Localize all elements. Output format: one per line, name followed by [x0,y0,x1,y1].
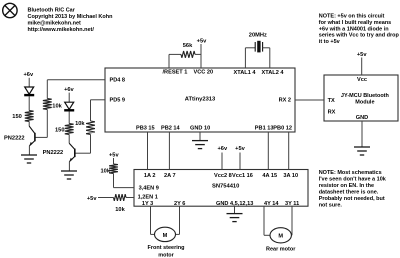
svg-text:PD5 9: PD5 9 [110,98,126,104]
svg-text:datasheet there is one.: datasheet there is one. [319,190,379,196]
svg-text:GND 4,5,12,13: GND 4,5,12,13 [216,201,253,207]
U1 pin label PB1 13 [255,126,274,132]
resistor R4 10k [86,121,95,135]
microcontroller U1 ATtiny2313 [105,68,295,132]
svg-text:3A 10: 3A 10 [283,173,298,179]
svg-text:+6v with a 1N4001 diode in: +6v with a 1N4001 diode in [319,26,389,32]
svg-text:JY-MCU Bluetooth: JY-MCU Bluetooth [341,93,390,99]
power +6v (LED1) [23,72,33,78]
module U3 JY-MCU Bluetooth box [324,75,398,121]
svg-text:motor: motor [158,252,174,258]
U1 pin label XTAL2 4 [262,70,285,76]
U1 pin label GND 10 [190,126,210,132]
wire +5v-Vcc1 [239,153,241,170]
logo mikekohn.net (circle with X) [3,3,17,17]
label 10k (3,4EN) [101,168,111,174]
wire XTAL1 stub [245,48,255,68]
svg-text:Bluetooth R/C Car: Bluetooth R/C Car [28,7,76,13]
svg-text:GND 10: GND 10 [190,126,210,132]
svg-text:XTAL2 4: XTAL2 4 [262,70,285,76]
U1 pin label PB2 14 [161,126,181,132]
U2 pin label 3A 10 [283,173,298,179]
svg-text:http://www.mikekohn.net/: http://www.mikekohn.net/ [28,27,95,33]
svg-text:RX 2: RX 2 [279,98,291,104]
wire PB3-1A [147,132,149,170]
svg-text:not sure.: not sure. [319,203,343,209]
U2 pin label Vcc1 16 [232,173,253,179]
svg-text:M: M [278,234,283,240]
ground (ATtiny) [192,141,208,149]
wire GND down [361,121,363,147]
wire 10k to 1,2EN [126,197,134,199]
label front steering motor [148,245,185,258]
label PN2222 (Q2) [43,150,64,156]
svg-text:Vcc1 16: Vcc1 16 [232,173,253,179]
U1 pin label PB0 12 [273,126,292,132]
svg-text:+6v: +6v [23,72,33,78]
wire +6v to LED1 [28,78,30,87]
svg-text:3,4EN 9: 3,4EN 9 [139,185,159,191]
motor M1 front steering [155,227,176,241]
wire R2 to Q1 base [35,110,47,138]
U2 pin label 1A 2 [144,173,156,179]
svg-text:3Y 11: 3Y 11 [285,201,299,207]
svg-text:series with Vcc to try and dro: series with Vcc to try and drop [319,33,400,39]
LED D2 [64,102,74,110]
svg-text:SN754410: SN754410 [212,184,239,190]
label 20MHz [249,33,267,39]
svg-text:2A 7: 2A 7 [164,173,176,179]
svg-text:Module: Module [355,100,374,106]
svg-text:Vcc2 8: Vcc2 8 [214,173,232,179]
power +5v (Vcc1) [235,146,245,152]
label 10k (R4) [75,121,85,127]
svg-text:RX: RX [328,109,336,115]
power +6v (LED2) [64,87,74,93]
U2 pin label 1,2EN 1 [138,194,158,200]
U2 pin label 1Y 3 [142,201,153,207]
svg-text:PB3 15: PB3 15 [136,126,155,132]
wire PD4 net [47,80,105,99]
U2 pin label 3Y 11 [285,201,299,207]
wire R1 to Q1 collector [28,122,30,127]
svg-text:PB2 14: PB2 14 [161,126,181,132]
note top-right [319,13,400,45]
svg-text:mike@mikekohn.net: mike@mikekohn.net [28,21,82,27]
svg-text:20MHz: 20MHz [249,33,267,39]
U1 pin label /RESET 1 [163,70,188,76]
svg-text:1Y 3: 1Y 3 [142,201,153,207]
svg-text:it to +5v: it to +5v [319,39,341,45]
U1 pin label RX 2 [279,98,291,104]
resistor R 56k [181,51,195,58]
U2 pin label 4A 15 [262,173,277,179]
svg-text:2Y 6: 2Y 6 [174,201,185,207]
wire PB0-3A [288,132,290,170]
wire Q1 emitter down [28,146,30,155]
resistor R3 150 [65,124,74,135]
svg-text:10k: 10k [115,207,125,213]
wire LED1 to R1 [28,96,30,110]
wire 4Y down [264,206,270,235]
crystal Y1 20MHz [255,41,262,53]
U3 pin label Vcc [357,77,367,83]
svg-text:VCC 20: VCC 20 [194,70,214,76]
wire GND10 down [199,132,201,141]
wire +5v down [113,158,115,164]
svg-text:1,2EN 1: 1,2EN 1 [138,194,158,200]
svg-text:+6v: +6v [64,87,74,93]
U2 pin label Vcc2 8 [214,173,232,179]
U1 pin label PB3 15 [136,126,155,132]
svg-text:4Y 14: 4Y 14 [264,201,279,207]
label 150 (R3) [55,128,65,134]
U2 pin label GND 4,5,12,13 [216,201,253,207]
svg-text:Copyright 2013 by Michael Kohn: Copyright 2013 by Michael Kohn [28,14,114,20]
wire 10k to 3,4EN [114,174,135,188]
svg-text:10k: 10k [52,104,62,110]
svg-text:resistor on EN. In the: resistor on EN. In the [319,183,374,189]
svg-text:/RESET 1: /RESET 1 [163,70,188,76]
svg-text:TX: TX [328,98,335,104]
label rear motor [266,247,296,253]
driver U2 SN754410 box [134,170,308,207]
wire 56k right lead [195,53,201,55]
power +5v (1,2EN) [87,196,97,202]
svg-text:150: 150 [55,128,65,134]
svg-text:PD4 8: PD4 8 [110,78,126,84]
svg-text:10k: 10k [101,168,111,174]
wire 3Y down [290,206,293,235]
svg-text:56k: 56k [183,43,193,49]
svg-text:PN2222: PN2222 [43,150,64,156]
wire 1Y down [151,206,155,234]
label 10k (1,2EN) [115,207,125,213]
resistor R1 150 [25,111,34,122]
svg-text:10k: 10k [75,121,85,127]
svg-text:PB0 12: PB0 12 [273,126,292,132]
wire PB1-4A [267,132,269,170]
svg-text:I've seen don't have a 10k: I've seen don't have a 10k [319,177,387,183]
motor M2 rear [270,228,291,243]
wire XTAL2 stub [263,48,270,68]
wire +6v-Vcc2 [221,153,223,170]
resistor R 10k (1,2EN) [114,194,127,201]
wire Q2 emitter down [68,162,70,171]
U1 pin label VCC 20 [194,70,214,76]
svg-text:Vcc: Vcc [357,77,367,83]
svg-text:M: M [163,233,168,239]
svg-text:+6v: +6v [217,146,227,152]
svg-text:NOTE: Most schematics: NOTE: Most schematics [319,170,382,176]
svg-text:for what I built really means: for what I built really means [319,20,391,26]
wire 56k left lead [169,53,181,55]
note bottom-right [319,170,387,209]
transistor Q1 PN2222 [29,126,35,146]
LED D1 [24,87,34,95]
wire 2Y down [176,206,180,234]
ground (SN754410) [227,214,243,222]
svg-text:+5v: +5v [87,196,97,202]
U3 pin label GND [356,115,368,121]
wire LED2 to R3 [68,111,70,123]
wire PD5 net [91,100,106,121]
title text block [28,7,114,33]
svg-text:+5v: +5v [235,146,245,152]
U2 pin label 2Y 6 [174,201,185,207]
svg-text:Probably not needed, but: Probably not needed, but [319,196,385,202]
svg-text:Front steering: Front steering [148,245,185,251]
wire PB2-2A [168,132,170,170]
U2 pin label 2A 7 [164,173,176,179]
power +6v (Vcc2) [217,146,227,152]
svg-text:GND: GND [356,115,368,121]
transistor Q2 PN2222 [69,143,75,161]
svg-text:XTAL1 4: XTAL1 4 [234,70,257,76]
wire R3 to Q2 collector [68,135,70,144]
wire +5v lead [98,197,114,199]
wire R4 to Q2 base [75,135,91,154]
svg-text:ATtiny2313: ATtiny2313 [185,97,216,103]
U1 pin label PD4 8 [110,78,126,84]
svg-text:PB1 13: PB1 13 [255,126,274,132]
U3 pin label TX [328,98,335,104]
svg-text:+5v: +5v [197,38,207,44]
wire +5v to Vcc [361,58,363,76]
svg-text:1A 2: 1A 2 [144,173,156,179]
wire RX2-TX [295,99,324,101]
resistor R2 10k [43,99,52,110]
U2 pin label 3,4EN 9 [139,185,159,191]
svg-text:4A 15: 4A 15 [262,173,277,179]
wire U2 GND down [234,206,236,213]
U1 pin label XTAL1 4 [234,70,257,76]
ground (bluetooth) [354,147,370,155]
label PN2222 (Q1) [4,136,25,142]
wire VCC stub [200,44,202,68]
U1 pin label PD5 9 [110,98,126,104]
svg-text:150: 150 [12,114,22,120]
svg-text:+5v: +5v [357,52,367,58]
svg-text:NOTE: +5v on this circuit: NOTE: +5v on this circuit [319,13,385,19]
svg-text:Rear motor: Rear motor [266,247,296,253]
label 56k [183,43,193,49]
svg-text:+5v: +5v [109,152,119,158]
ground (Q2) [61,171,77,179]
power +5v (bluetooth) [357,52,367,58]
wire +6v to LED2 [68,93,70,103]
resistor R 10k (3,4EN) [109,164,118,174]
label 10k (R2) [52,104,62,110]
U2 pin label 4Y 14 [264,201,279,207]
U3 pin label RX [328,109,336,115]
power +5v (3,4EN) [109,152,119,158]
ground (Q1) [21,155,37,163]
power +5v (VCC20) [197,38,207,44]
svg-text:PN2222: PN2222 [4,136,25,142]
wire /RESET stub [168,54,170,68]
label 150 (R1) [12,114,22,120]
